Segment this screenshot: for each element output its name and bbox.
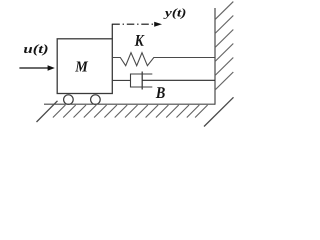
spring K <box>113 53 215 66</box>
label M <box>75 62 88 72</box>
wall line <box>214 8 216 105</box>
displacement stub (box edge extended up) <box>111 24 113 39</box>
wheel left <box>64 95 74 105</box>
label B <box>156 87 165 98</box>
cylinder <box>131 74 153 87</box>
mass M box <box>57 39 112 94</box>
label K <box>135 35 145 46</box>
damper B <box>113 72 215 90</box>
label u(t) <box>24 44 48 55</box>
wall hatching <box>215 2 233 90</box>
ground hatching <box>37 97 234 126</box>
wheel right <box>91 95 101 105</box>
ground line <box>44 103 215 105</box>
u(t) input arrow <box>19 65 54 70</box>
right rod <box>142 79 215 81</box>
piston <box>141 72 143 90</box>
left rod <box>113 79 131 81</box>
label y(t) <box>163 8 185 19</box>
y(t) dash-dot output arrow <box>112 22 162 27</box>
